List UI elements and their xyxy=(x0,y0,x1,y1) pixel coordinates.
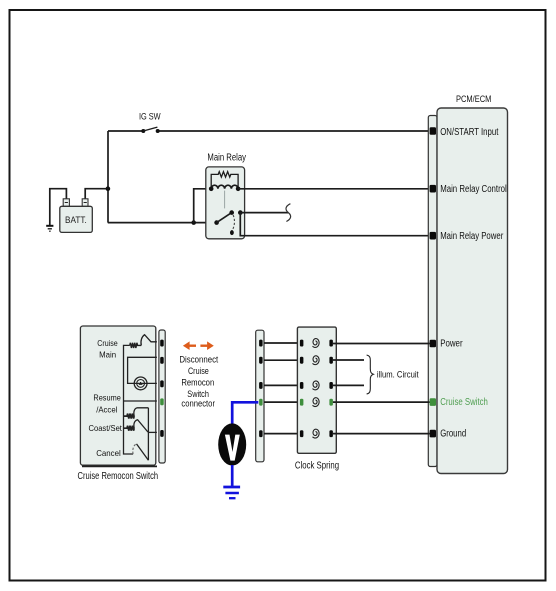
pin clockspring L4 green xyxy=(300,399,304,406)
arrows disconnect xyxy=(183,341,214,350)
pin Ground xyxy=(430,430,436,438)
spiral 5 xyxy=(313,429,320,438)
battery BATT. xyxy=(60,199,93,233)
pin clockspring R1 xyxy=(329,340,333,347)
brace illum circuit xyxy=(367,355,374,394)
voltmeter V xyxy=(218,423,246,465)
svg-text:Cruise Remocon Switch: Cruise Remocon Switch xyxy=(78,471,159,482)
switch coast/set xyxy=(134,420,148,432)
cruise remocon switch box xyxy=(78,326,159,482)
svg-text:/Accel: /Accel xyxy=(96,404,117,414)
wire B+ rail xyxy=(108,222,217,224)
svg-text:Main Relay: Main Relay xyxy=(207,153,246,164)
wire power row xyxy=(333,343,430,345)
svg-text:Main Relay Power: Main Relay Power xyxy=(440,231,504,242)
pin ON/START Input xyxy=(430,127,436,135)
wire internal bus xyxy=(124,345,134,454)
pin remocon 1 xyxy=(160,340,164,347)
wire cruise switch row xyxy=(333,401,430,403)
pin clockspring R4 green xyxy=(329,399,333,406)
svg-text:Cruise: Cruise xyxy=(188,366,209,376)
wire battery negative xyxy=(50,189,67,226)
wire main relay power xyxy=(240,213,429,236)
svg-text:Power: Power xyxy=(440,339,463,350)
pin clockspring L5 xyxy=(300,430,304,437)
pin Main Relay Control xyxy=(430,185,436,193)
pin remocon 3 xyxy=(160,380,164,387)
pin clockspring R2 xyxy=(329,357,333,364)
connector harness strip xyxy=(256,330,264,462)
wire relay NO output xyxy=(240,212,288,214)
svg-text:ON/START Input: ON/START Input xyxy=(440,127,498,138)
ground battery xyxy=(46,226,53,231)
wire voltmeter blue bottom xyxy=(231,465,234,486)
text disconnect note xyxy=(179,354,218,408)
connector remocon strip xyxy=(159,330,165,463)
wire IG rail top xyxy=(108,131,430,223)
pin Power xyxy=(430,340,436,348)
resistor relay xyxy=(211,172,238,189)
wire voltmeter blue top xyxy=(232,402,258,424)
pin harness 2 xyxy=(259,357,263,364)
resistor cruise main xyxy=(130,343,142,348)
break squiggle xyxy=(286,204,291,222)
svg-text:connector: connector xyxy=(181,399,215,409)
wires harness to clock spring xyxy=(264,343,300,434)
spiral 2 xyxy=(313,356,320,365)
switch cruise main xyxy=(141,335,157,346)
ground voltmeter xyxy=(223,487,240,498)
switch relay contacts xyxy=(214,210,242,235)
pin harness 3 xyxy=(259,382,263,389)
wire common vertical xyxy=(147,408,149,460)
switch IG SW xyxy=(139,112,161,133)
pin remocon 4 green xyxy=(160,398,164,405)
svg-text:Ground: Ground xyxy=(440,429,466,440)
svg-text:Clock Spring: Clock Spring xyxy=(295,461,339,472)
resistor resume/accel xyxy=(124,414,135,419)
pin harness 5 xyxy=(259,430,263,437)
pin remocon 5 xyxy=(160,430,164,437)
svg-text:Main: Main xyxy=(99,349,116,359)
svg-text:Main Relay Control: Main Relay Control xyxy=(440,184,507,195)
inductor relay coil xyxy=(211,185,238,189)
spiral 3 xyxy=(313,381,320,390)
svg-text:IG SW: IG SW xyxy=(139,112,161,123)
pin harness 4 green xyxy=(259,399,263,406)
spiral 1 xyxy=(313,339,320,348)
pin remocon 2 xyxy=(160,357,164,364)
svg-text:Remocon: Remocon xyxy=(181,378,214,388)
connector PCM strip xyxy=(428,116,437,467)
svg-text:Cruise Switch: Cruise Switch xyxy=(440,397,488,408)
pin clockspring L1 xyxy=(300,340,304,347)
svg-text:Resume: Resume xyxy=(93,392,121,402)
wire coil branch xyxy=(194,189,211,223)
wire main relay control xyxy=(238,188,430,190)
wire pin5 row xyxy=(148,431,157,433)
node coil branch xyxy=(191,220,196,225)
pin clockspring L2 xyxy=(300,357,304,364)
wire cruise switch row xyxy=(124,400,157,402)
pin clockspring R3 xyxy=(329,382,333,389)
pin clockspring R5 xyxy=(329,430,333,437)
lamp illumination xyxy=(134,377,147,390)
PCM/ECM box xyxy=(437,94,508,474)
svg-text:Coast/Set: Coast/Set xyxy=(88,423,122,433)
spiral 4 xyxy=(313,398,320,407)
wire relay link xyxy=(224,191,226,209)
wire lamp loop xyxy=(128,357,157,383)
svg-text:illum. Circuit: illum. Circuit xyxy=(377,370,419,381)
resistor coast/set xyxy=(124,426,135,431)
pin clockspring L3 xyxy=(300,382,304,389)
switch cancel xyxy=(133,444,137,454)
svg-text:Cancel: Cancel xyxy=(96,448,121,458)
wire illum row 1 xyxy=(333,359,364,361)
svg-text:Switch: Switch xyxy=(187,389,209,399)
wire battery positive xyxy=(85,189,108,199)
svg-text:PCM/ECM: PCM/ECM xyxy=(456,94,492,105)
svg-text:BATT.: BATT. xyxy=(65,215,87,225)
clock spring box xyxy=(295,327,339,471)
pin Cruise Switch xyxy=(430,398,436,406)
node battery junction xyxy=(106,186,111,191)
relay Main Relay box xyxy=(206,153,246,239)
pin harness 1 xyxy=(259,340,263,347)
svg-text:Cruise: Cruise xyxy=(97,338,118,348)
switch resume/accel xyxy=(134,408,149,416)
pin Main Relay Power xyxy=(430,232,436,240)
svg-text:Disconnect: Disconnect xyxy=(179,354,218,364)
wire illum row 2 xyxy=(333,384,364,386)
wire ground row xyxy=(333,433,430,435)
